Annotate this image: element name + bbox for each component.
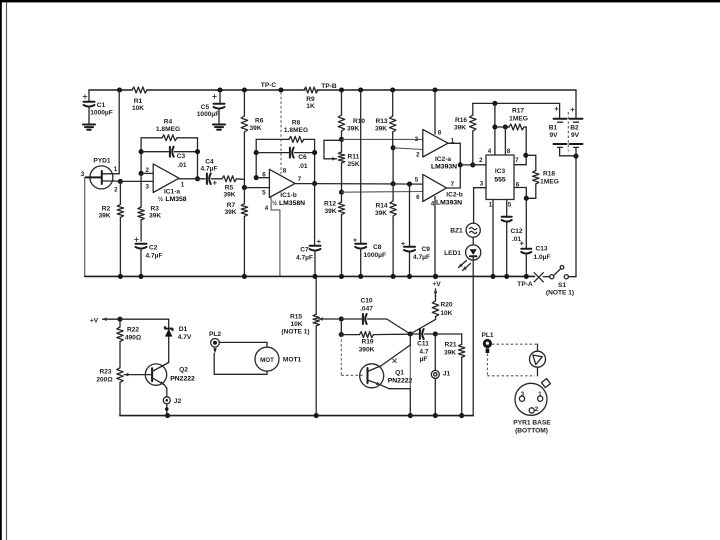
wire top rail down to B2 (575, 90, 577, 118)
svg-text:10K: 10K (132, 105, 144, 112)
battery B2 (571, 109, 575, 111)
PYR1 base pin 1 (538, 396, 543, 401)
svg-text:R8: R8 (292, 120, 301, 127)
node IC1-a pin2 (139, 171, 144, 176)
resistor R18 (526, 154, 536, 156)
wire output bus to IC3 pin2 (460, 164, 486, 166)
svg-text:1MEG: 1MEG (540, 179, 559, 186)
svg-text:C2: C2 (149, 245, 158, 252)
svg-text:PYD1: PYD1 (93, 158, 111, 165)
svg-text:R16: R16 (455, 117, 467, 124)
resistor R6 (243, 90, 245, 116)
potentiometer R11 (341, 139, 343, 152)
op-amp IC2-a (423, 129, 448, 157)
node R16 bottom (470, 162, 475, 167)
op-amp IC2-b (423, 174, 447, 201)
wire R17 to pin7 vertical (525, 127, 527, 165)
svg-text:39K: 39K (375, 210, 387, 217)
resistor R9 (304, 87, 318, 93)
svg-text:R1: R1 (134, 98, 143, 105)
wire PL1 dashed loop (492, 343, 538, 345)
svg-text:4.7µF: 4.7µF (296, 255, 313, 262)
wire IC1-b pin4 leg (271, 198, 280, 277)
capacitor C10 (341, 318, 361, 320)
svg-text:+V: +V (90, 318, 99, 325)
svg-text:R18: R18 (543, 171, 555, 178)
svg-text:(BOTTOM): (BOTTOM) (515, 428, 548, 435)
svg-text:IC1-a: IC1-a (164, 189, 180, 196)
wire IC3 pin5 to C12 (506, 200, 508, 217)
svg-text:4.7µF: 4.7µF (146, 253, 163, 260)
resistor R4 (141, 137, 162, 139)
svg-text:7: 7 (298, 176, 302, 183)
test point TP-A cross (534, 273, 543, 282)
svg-text:½: ½ (158, 196, 163, 203)
LED1 emission arrows (459, 261, 467, 268)
wire R23 wiper to Q2 base (124, 374, 135, 376)
wire supply to B1 plus (559, 103, 561, 118)
svg-text:39K: 39K (98, 213, 110, 220)
capacitor C1 (88, 90, 90, 101)
svg-text:1000µF: 1000µF (364, 252, 387, 259)
border top edge (0, 0, 720, 2)
svg-text:C3: C3 (177, 153, 186, 160)
svg-text:C11: C11 (417, 341, 429, 348)
wire PYD1 pin3 left leg (84, 177, 86, 276)
node signal at C9 (407, 182, 412, 187)
wire stub IC1-b pin6 (256, 177, 269, 179)
svg-text:C9: C9 (422, 246, 431, 253)
svg-text:5: 5 (415, 177, 419, 184)
ground below C1 (83, 124, 95, 126)
motor MOT1 (255, 347, 279, 371)
svg-text:C13: C13 (535, 246, 547, 253)
svg-text:µF: µF (420, 356, 428, 363)
svg-text:3: 3 (415, 136, 419, 143)
node feedback-C3 right (195, 149, 200, 154)
svg-text:Q1: Q1 (395, 370, 404, 377)
svg-text:R17: R17 (512, 108, 524, 115)
svg-text:6: 6 (416, 194, 420, 201)
wire PYD1 pin2 to node A (114, 180, 121, 182)
wire R15 wiper (319, 318, 327, 320)
svg-text:1.0µF: 1.0µF (534, 254, 551, 261)
svg-text:4.7µF: 4.7µF (413, 254, 430, 261)
node bottom rail C9 (407, 274, 412, 279)
wire LED1 cathode down to lower rail (472, 260, 474, 416)
svg-text:LED1: LED1 (444, 250, 461, 257)
node lower rail Q1 (408, 413, 413, 418)
op-amp IC1-b (269, 169, 295, 197)
node lower rail J2 (165, 413, 170, 418)
svg-text:(NOTE 1): (NOTE 1) (546, 290, 574, 297)
node lower rail R15 (314, 413, 319, 418)
resistor R14 (392, 184, 394, 201)
svg-text:8: 8 (507, 148, 511, 155)
node IC1-b pin6 (254, 175, 259, 180)
svg-text:R5: R5 (225, 185, 234, 192)
resistor R2 (119, 181, 121, 204)
wire node A to IC1-a pin3 (120, 180, 153, 182)
svg-text:8: 8 (283, 168, 287, 175)
node R18 bottom junction (524, 196, 529, 201)
svg-text:R4: R4 (164, 119, 173, 126)
svg-text:R22: R22 (127, 327, 139, 334)
wire +9V distribution top (473, 102, 560, 104)
node top rail junction R13 (390, 87, 395, 92)
svg-text:S1: S1 (558, 282, 566, 289)
svg-text:R2: R2 (102, 206, 111, 213)
svg-text:(NOTE 1): (NOTE 1) (281, 329, 309, 336)
node R8-C6 left (254, 150, 259, 155)
capacitor C5 (219, 90, 221, 103)
node battery minus junction (573, 154, 578, 159)
svg-text:1: 1 (114, 166, 118, 173)
svg-text:39K: 39K (454, 125, 466, 132)
svg-text:7: 7 (451, 181, 455, 188)
node R8-C6 right (312, 150, 317, 155)
node R18 top junction (523, 153, 528, 158)
svg-text:200Ω: 200Ω (96, 377, 113, 384)
resistor R3 (140, 173, 142, 207)
wire IC1-b feedback right vertical (314, 139, 316, 183)
svg-text:.047: .047 (360, 306, 373, 313)
node top rail junction R6 (242, 87, 247, 92)
svg-text:39K: 39K (444, 350, 456, 357)
svg-text:1: 1 (538, 391, 542, 398)
svg-text:TP-B: TP-B (321, 83, 337, 90)
wire motor bottom loop to PL2 (266, 371, 268, 374)
svg-text:Q2: Q2 (179, 367, 188, 374)
svg-text:4: 4 (265, 205, 269, 212)
wire IC2-a pin8 to top rail (434, 90, 436, 134)
wire R13 node down to signal line (392, 148, 394, 184)
svg-text:.01: .01 (177, 162, 186, 169)
svg-text:25K: 25K (348, 161, 360, 168)
wire IC3 pin7 stub (514, 164, 526, 166)
svg-text:IC3: IC3 (495, 168, 506, 175)
switch S1 (543, 276, 549, 278)
resistor R1 (132, 87, 147, 93)
svg-text:8: 8 (438, 130, 442, 137)
ground below C5 (213, 124, 225, 126)
svg-text:2: 2 (535, 406, 539, 413)
wire Q1 collector column (409, 334, 411, 346)
svg-text:1000µF: 1000µF (90, 110, 113, 117)
svg-text:TP-A: TP-A (517, 281, 533, 288)
svg-text:4: 4 (488, 148, 492, 155)
wire IC2-b pin4 to bottom rail (434, 197, 436, 277)
LED LED1 (466, 245, 481, 260)
wire C10 to Q1 collector node (387, 319, 411, 334)
wire main bottom rail (85, 275, 535, 277)
wire IC1-a feedback right vertical (197, 138, 199, 179)
svg-text:9V: 9V (571, 132, 580, 139)
wire IC1-a output (179, 178, 198, 180)
wire R10 node to IC2-a pin3 (342, 138, 423, 140)
node Q1 collector (408, 331, 413, 336)
transistor Q1 (360, 364, 384, 388)
resistor R8 (256, 138, 289, 140)
svg-text:R14: R14 (375, 203, 387, 210)
svg-text:C7: C7 (300, 247, 309, 254)
wire IC1-b output to IC2-b pin5 (295, 183, 315, 185)
node lower rail R21 (459, 413, 464, 418)
svg-text:IC2-a: IC2-a (435, 156, 451, 163)
svg-text:C4: C4 (205, 159, 214, 166)
svg-text:TP-C: TP-C (261, 82, 277, 89)
wire crossing mark on Q1 collector (393, 359, 397, 363)
svg-text:3: 3 (521, 391, 525, 398)
resistor R20 (435, 295, 437, 301)
svg-text:4.7µF: 4.7µF (201, 166, 218, 173)
svg-text:39K: 39K (250, 125, 262, 132)
svg-text:½: ½ (272, 200, 277, 207)
node bottom rail C13 (524, 274, 529, 279)
wire stub to IC1-a pin2 (141, 172, 153, 174)
svg-text:J2: J2 (174, 398, 182, 405)
node top rail junction R10 (339, 87, 344, 92)
node R13 bottom (391, 145, 396, 150)
svg-text:R20: R20 (440, 302, 452, 309)
wire B1 bottom to B2 bottom (560, 155, 576, 157)
node bottom rail C2 (138, 274, 143, 279)
resistor R12 (341, 192, 343, 202)
wire Q1 base dashed (340, 335, 342, 376)
node IC1-a output (195, 176, 200, 181)
PYR1 base pin 3 (519, 396, 524, 401)
svg-text:9V: 9V (549, 132, 558, 139)
wire IC3 pin8 feed (504, 127, 506, 155)
wire TP-C dashed probe line (280, 92, 282, 174)
jack J1 (434, 334, 436, 370)
capacitor C12 (502, 216, 512, 218)
node C10-R19 top (339, 316, 344, 321)
svg-text:J1: J1 (443, 371, 451, 378)
node bottom rail IC3 pin1 (490, 274, 495, 279)
svg-text:MOT: MOT (260, 357, 274, 364)
svg-text:2: 2 (114, 187, 118, 194)
svg-text:2: 2 (479, 157, 483, 164)
svg-text:IC1-b: IC1-b (280, 192, 296, 199)
svg-text:.01: .01 (298, 163, 307, 170)
svg-text:39K: 39K (149, 213, 161, 220)
wire top rail R9 to battery corner (317, 89, 576, 91)
battery separator dashed (567, 112, 569, 151)
svg-text:.01: .01 (512, 236, 521, 243)
svg-text:1K: 1K (306, 103, 315, 110)
svg-text:10K: 10K (440, 310, 452, 317)
resistor R17 (509, 124, 524, 130)
capacitor C2 (134, 239, 138, 241)
zener diode D1 (168, 319, 170, 328)
svg-text:C10: C10 (360, 298, 372, 305)
svg-text:R9: R9 (306, 96, 315, 103)
wire IC3 pin3 to buzzer (474, 187, 486, 189)
node bottom rail C12 (504, 274, 509, 279)
resistor R5 (222, 176, 237, 182)
node IC3 supply tap (492, 101, 497, 106)
wire battery minus down to S1 (575, 156, 577, 277)
svg-text:C6: C6 (298, 154, 307, 161)
potentiometer R23 (117, 368, 123, 383)
svg-text:LM358: LM358 (165, 196, 186, 203)
wire R17 net (495, 126, 509, 128)
node R10 bottom (339, 137, 344, 142)
svg-text:4.7V: 4.7V (178, 334, 192, 341)
node A junction PYD1 out (118, 179, 123, 184)
svg-text:LM393N: LM393N (431, 164, 457, 171)
capacitor C6 (256, 152, 288, 154)
node bottom rail C7 (312, 274, 317, 279)
wire C4 to R5 (212, 178, 223, 180)
capacitor C7 (314, 184, 316, 245)
svg-text:LM358N: LM358N (279, 200, 305, 207)
scan gutter line (6, 2, 8, 540)
wire C11 node to R21 (435, 333, 461, 335)
wire IC2-a output (448, 142, 460, 144)
wire R11 node to IC2-b pin6 (342, 191, 423, 194)
svg-text:R13: R13 (375, 118, 387, 125)
resistor R13 (392, 90, 394, 116)
resistor R7 (243, 188, 245, 204)
node TP-C (278, 87, 283, 92)
node pin4-R17 junction (492, 124, 497, 129)
svg-text:10K: 10K (290, 321, 302, 328)
wire BZ1 to LED1 (472, 237, 474, 245)
svg-text:PN2222: PN2222 (388, 378, 413, 385)
node +V junction R22 (117, 317, 122, 322)
wire R13 node to IC2-a pin2 (393, 148, 423, 150)
svg-text:D1: D1 (179, 326, 188, 333)
capacitor C11 (410, 333, 418, 335)
capacitor C4 (206, 174, 208, 185)
resistor R19 (341, 334, 359, 336)
timer IC3 555 (486, 155, 514, 200)
svg-text:PN2222: PN2222 (170, 376, 195, 383)
node lower rail J1 (433, 413, 438, 418)
wire IC3 pin6 stub (514, 187, 526, 189)
resistor R15 (315, 276, 317, 314)
svg-text:1MEG: 1MEG (509, 116, 528, 123)
wire +V top rail left segment (89, 89, 132, 91)
svg-text:C5: C5 (201, 104, 210, 111)
node bottom rail C8 (358, 274, 363, 279)
resistor R10 (341, 90, 343, 115)
svg-text:PYR1 BASE: PYR1 BASE (513, 420, 551, 427)
connector PYR1 base outline (515, 383, 547, 415)
node R5-R6 junction (242, 185, 247, 190)
wire IC1-b feedback left vertical (255, 139, 257, 177)
svg-text:BZ1: BZ1 (450, 228, 463, 235)
svg-text:39K: 39K (223, 192, 235, 199)
node pin8 junction (503, 124, 508, 129)
wire PYD1 pin1 to top rail (114, 173, 120, 175)
capacitor C8 (360, 90, 362, 243)
svg-text:2: 2 (416, 152, 420, 159)
svg-text:R12: R12 (324, 201, 336, 208)
wire comparator output bus vertical (459, 143, 461, 188)
buzzer BZ1 (466, 223, 480, 237)
svg-text:39K: 39K (347, 126, 359, 133)
wire PL2 to motor top (219, 341, 267, 343)
wire +V node to zener (120, 318, 169, 320)
sensor PYD1 (90, 166, 113, 189)
wire IC1-a feedback left vertical (140, 138, 142, 174)
node R19 left (339, 332, 344, 337)
resistor R16 (472, 103, 474, 115)
node top rail junction C5 (217, 87, 222, 92)
svg-text:LM393N: LM393N (436, 200, 462, 207)
svg-text:R19: R19 (361, 339, 373, 346)
resistor R22 (119, 319, 121, 327)
node R11 bottom (339, 190, 344, 195)
svg-text:IC2-b: IC2-b (446, 192, 462, 199)
wire IC3 pin2 stub (473, 164, 486, 166)
svg-text:R23: R23 (99, 369, 111, 376)
svg-text:MOT1: MOT1 (283, 357, 302, 364)
svg-text:5: 5 (508, 202, 512, 209)
wire top rail R1 to TP-C (147, 89, 305, 91)
wire junction to IC1-b pin5 (244, 187, 269, 189)
svg-text:R21: R21 (444, 342, 456, 349)
node C11 right (433, 331, 438, 336)
svg-text:PL2: PL2 (209, 331, 221, 338)
wire IC3 pin4 feed (494, 103, 496, 155)
node top rail junction PYD1 pin1 (117, 87, 122, 92)
svg-text:B1: B1 (549, 125, 558, 132)
svg-text:C8: C8 (373, 244, 382, 251)
jack J2 (163, 397, 170, 404)
svg-text:C12: C12 (510, 228, 522, 235)
svg-text:1: 1 (181, 182, 185, 189)
svg-text:39K: 39K (324, 208, 336, 215)
svg-text:R7: R7 (227, 202, 236, 209)
node feedback-C3 left (139, 149, 144, 154)
capacitor C13 (525, 198, 527, 248)
svg-text:1.8MEG: 1.8MEG (156, 126, 180, 133)
border left edge (0, 0, 2, 540)
svg-text:555: 555 (494, 177, 506, 184)
svg-text:R6: R6 (255, 118, 264, 125)
wire IC3 pin1 to bottom rail (492, 200, 494, 277)
node top rail junction IC2 pin8 (432, 87, 437, 92)
svg-text:B2: B2 (570, 125, 579, 132)
svg-text:R15: R15 (290, 314, 302, 321)
capacitor C9 (409, 184, 411, 246)
node IC1-b output (312, 181, 317, 186)
svg-text:3: 3 (480, 181, 484, 188)
svg-text:1.8MEG: 1.8MEG (284, 127, 308, 134)
svg-text:39K: 39K (375, 126, 387, 133)
node bottom rail R7 (242, 274, 247, 279)
node top rail junction C8 (358, 87, 363, 92)
resistor R21 (461, 334, 463, 344)
svg-text:+V: +V (432, 281, 441, 288)
svg-text:R3: R3 (151, 206, 160, 213)
node bottom rail R14 (391, 274, 396, 279)
node signal at R14 (391, 181, 396, 186)
battery B1 (555, 108, 559, 110)
svg-text:R10: R10 (353, 118, 365, 125)
node bottom rail R12 (339, 274, 344, 279)
wire R11 wiper (324, 158, 337, 160)
svg-text:1: 1 (489, 202, 493, 209)
svg-text:3: 3 (81, 171, 85, 178)
svg-text:4: 4 (431, 201, 435, 208)
svg-text:R11: R11 (348, 154, 360, 161)
PYR1 base pin 2 (529, 408, 534, 413)
